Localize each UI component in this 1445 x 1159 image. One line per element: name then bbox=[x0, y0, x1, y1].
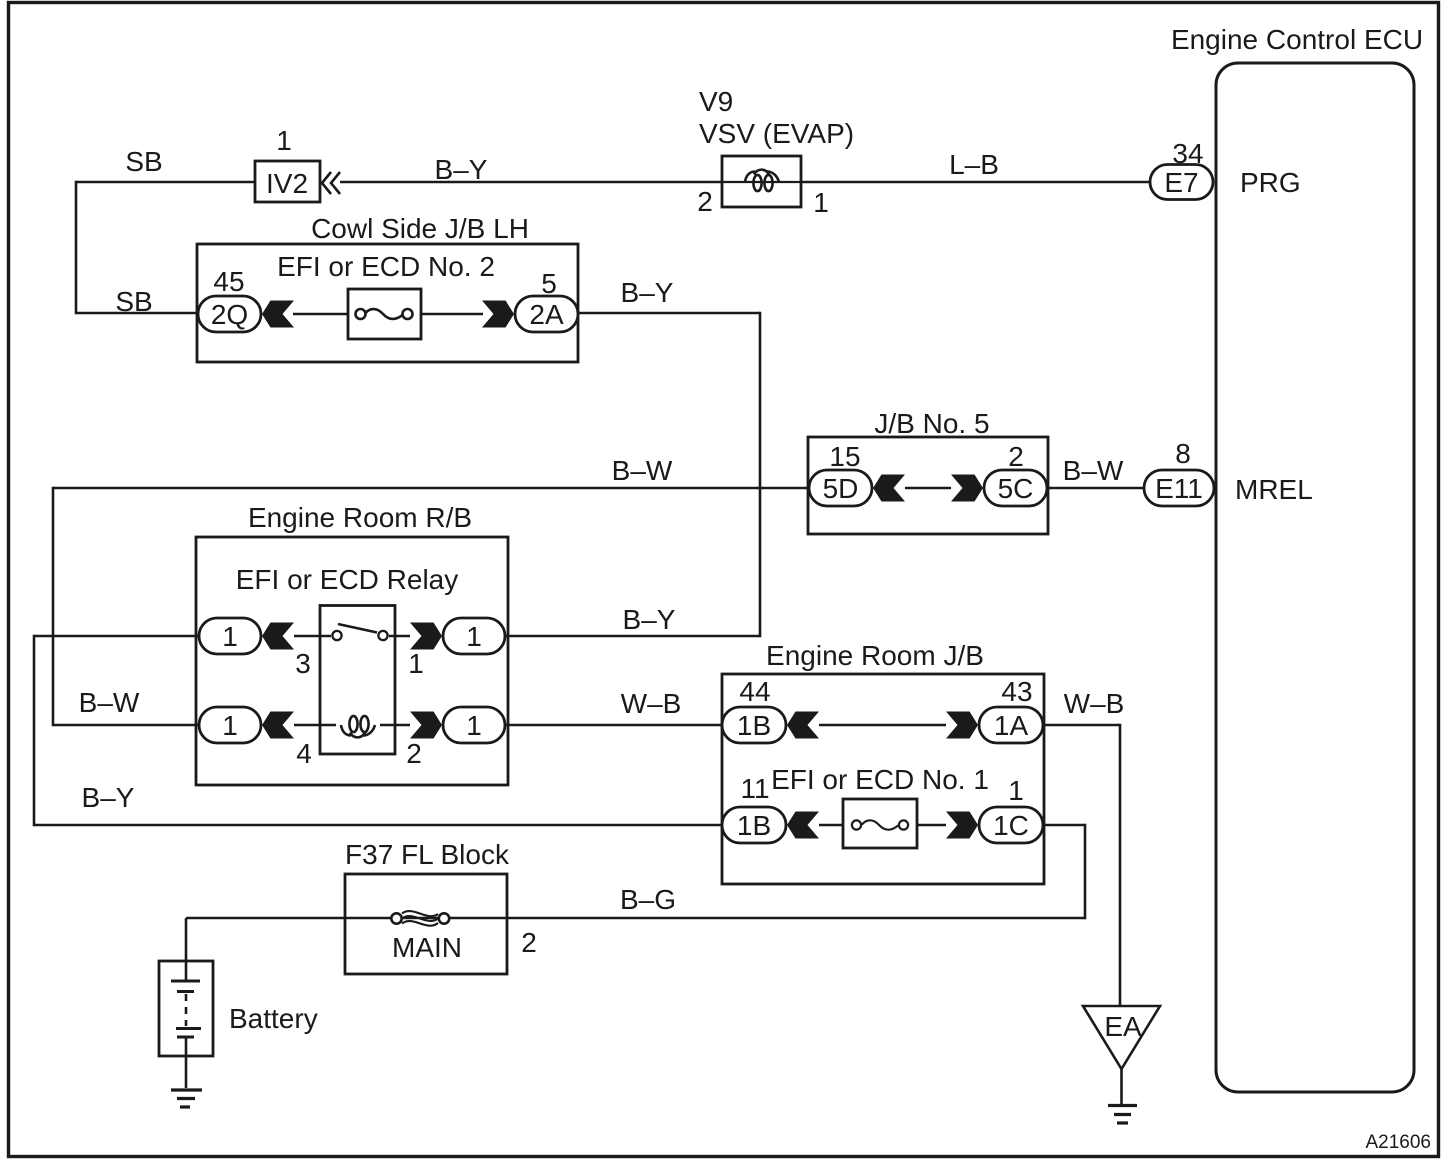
svg-text:V9: V9 bbox=[699, 86, 733, 117]
wire between arrows bbox=[905, 487, 951, 490]
svg-text:2A: 2A bbox=[529, 299, 564, 330]
wire B-Y bottom to 1B bbox=[34, 824, 722, 827]
connector 1B bottom bbox=[722, 807, 786, 843]
wire W-B (1A to EA drop) bbox=[1043, 724, 1120, 727]
F37 box bbox=[345, 874, 507, 974]
battery plate long bottom bbox=[176, 1027, 201, 1030]
fuse element bbox=[852, 820, 861, 829]
svg-text:L–B: L–B bbox=[949, 149, 999, 180]
Engine Room J/B box bbox=[722, 674, 1044, 884]
connector 1B top bbox=[722, 707, 786, 743]
ground bars EA bbox=[1108, 1104, 1137, 1107]
arrow into terminal 4 bbox=[262, 712, 294, 739]
R/B box bbox=[196, 537, 508, 785]
wire B-W to relay coil pin 4 bbox=[53, 724, 199, 727]
connector IV2 bbox=[255, 161, 320, 202]
svg-text:EFI or ECD Relay: EFI or ECD Relay bbox=[236, 564, 459, 595]
svg-text:EA: EA bbox=[1104, 1011, 1142, 1042]
battery plate short bottom bbox=[177, 1036, 194, 1039]
svg-text:1: 1 bbox=[276, 125, 292, 156]
relay terminal 3 oval bbox=[199, 618, 261, 654]
svg-text:45: 45 bbox=[213, 266, 244, 297]
wire battery bottom bbox=[185, 1037, 188, 1088]
relay switch blade bbox=[338, 624, 377, 633]
wire B-G horizontal bbox=[186, 917, 1085, 920]
connector E11 bbox=[1144, 470, 1214, 506]
ground under battery bbox=[171, 1088, 202, 1091]
wire W-B vertical to EA bbox=[1119, 724, 1122, 1006]
svg-text:A21606: A21606 bbox=[1365, 1132, 1431, 1153]
svg-text:1: 1 bbox=[813, 187, 829, 218]
arrow into 1B bottom bbox=[787, 812, 819, 839]
wire between arrows top row bbox=[819, 724, 946, 727]
svg-text:1A: 1A bbox=[994, 710, 1029, 741]
Cowl Side J/B LH block bbox=[197, 213, 578, 362]
wire arrow to fuse bbox=[819, 824, 843, 827]
arrow into 1B top bbox=[787, 712, 819, 739]
svg-text:SB: SB bbox=[115, 286, 152, 317]
wire B-W horizontal to 5D bbox=[53, 487, 808, 490]
svg-text:B–Y: B–Y bbox=[82, 782, 135, 813]
connector 2A bbox=[515, 296, 578, 332]
wire arrow to relay box bottom bbox=[294, 724, 336, 727]
svg-text:J/B No. 5: J/B No. 5 bbox=[874, 408, 989, 439]
fusible link wavy band bbox=[402, 911, 438, 926]
fuse EFI or ECD No. 1 box bbox=[843, 799, 917, 848]
svg-text:1C: 1C bbox=[993, 810, 1029, 841]
wire B-Y (2A to vertical) bbox=[578, 312, 760, 315]
wire L-B (VSV to E7) bbox=[801, 181, 1150, 184]
J/B No. 5 block bbox=[808, 408, 1048, 534]
VSV box bbox=[722, 156, 801, 207]
connector 2Q bbox=[198, 296, 261, 332]
relay coil (loops above line) bbox=[341, 716, 375, 737]
Engine Room J/B block bbox=[722, 640, 1044, 884]
svg-text:1: 1 bbox=[1008, 775, 1024, 806]
svg-text:1B: 1B bbox=[737, 810, 771, 841]
wire battery top bbox=[185, 918, 188, 981]
relay inner box bbox=[320, 606, 395, 755]
svg-text:E7: E7 bbox=[1164, 167, 1198, 198]
ground EA bbox=[1083, 1006, 1160, 1123]
wire B-W vertical x53 bbox=[52, 487, 55, 726]
relay terminal 2 oval bbox=[443, 707, 505, 743]
connector 1C bbox=[979, 807, 1043, 843]
connector 5C bbox=[984, 470, 1047, 506]
wire W-B relay pin2 to 1B bbox=[505, 724, 722, 727]
ECU U1 box (Engine Control ECU) bbox=[1216, 63, 1414, 1092]
svg-text:1B: 1B bbox=[737, 710, 771, 741]
J/B No.5 box bbox=[808, 437, 1048, 534]
fuse EFI or ECD No. 2 box bbox=[348, 289, 421, 339]
svg-text:1: 1 bbox=[222, 621, 238, 652]
svg-text:Engine Room J/B: Engine Room J/B bbox=[766, 640, 984, 671]
fuse element bbox=[356, 309, 366, 319]
svg-text:Cowl Side J/B LH: Cowl Side J/B LH bbox=[311, 213, 529, 244]
relay terminal 4 oval bbox=[199, 707, 261, 743]
connector arrow chevrons at IV2 bbox=[322, 172, 340, 194]
connector E7 bbox=[1150, 165, 1213, 200]
svg-text:1: 1 bbox=[222, 710, 238, 741]
wire coil to arrow bbox=[380, 724, 410, 727]
wire B-Y vertical x34 bbox=[33, 635, 36, 826]
battery bbox=[159, 918, 318, 1107]
wire B-Y (relay pin3 to left) bbox=[34, 635, 199, 638]
svg-text:B–G: B–G bbox=[620, 884, 676, 915]
svg-text:2: 2 bbox=[521, 927, 537, 958]
arrow into 2Q bbox=[262, 301, 294, 328]
wire B-Y (VSV to IV2) bbox=[340, 181, 722, 184]
svg-text:44: 44 bbox=[739, 676, 770, 707]
svg-text:11: 11 bbox=[740, 773, 769, 804]
wire EA to ground bbox=[1120, 1069, 1123, 1105]
svg-text:MAIN: MAIN bbox=[392, 932, 462, 963]
svg-text:B–Y: B–Y bbox=[623, 604, 676, 635]
wire 2Q arrow to fuse bbox=[293, 313, 348, 316]
svg-text:Battery: Battery bbox=[229, 1003, 318, 1034]
battery plate short bbox=[177, 990, 194, 993]
svg-text:1: 1 bbox=[408, 648, 424, 679]
svg-text:1: 1 bbox=[466, 621, 482, 652]
svg-text:2Q: 2Q bbox=[211, 299, 248, 330]
arrow into 1A bbox=[946, 712, 978, 739]
arrow into 5D bbox=[873, 475, 905, 502]
svg-text:Engine Control ECU: Engine Control ECU bbox=[1171, 24, 1423, 55]
svg-text:2: 2 bbox=[1008, 441, 1024, 472]
wire SB vertical drop bbox=[75, 181, 78, 314]
svg-text:B–W: B–W bbox=[79, 687, 140, 718]
component V9 VSV (EVAP) bbox=[697, 86, 854, 218]
svg-text:W–B: W–B bbox=[621, 688, 682, 719]
arrow into terminal 3 bbox=[262, 623, 294, 650]
Engine Room R/B block bbox=[196, 502, 508, 785]
svg-text:4: 4 bbox=[296, 738, 312, 769]
connector 1A bbox=[979, 707, 1043, 743]
EA triangle bbox=[1083, 1006, 1160, 1069]
svg-text:F37 FL Block: F37 FL Block bbox=[345, 839, 510, 870]
svg-text:1: 1 bbox=[466, 710, 482, 741]
wire SB (IV2 pin1 to left drop) bbox=[76, 181, 255, 184]
svg-text:E11: E11 bbox=[1155, 473, 1203, 504]
svg-text:5: 5 bbox=[541, 268, 557, 299]
arrow into 1C bbox=[946, 812, 978, 839]
svg-text:PRG: PRG bbox=[1240, 167, 1301, 198]
arrow into terminal 2 bbox=[410, 712, 442, 739]
wire relay box to arrow bbox=[389, 635, 410, 638]
svg-text:B–W: B–W bbox=[612, 455, 673, 486]
wire B-Y vertical x760 bbox=[759, 312, 762, 637]
svg-text:5C: 5C bbox=[998, 473, 1034, 504]
wire through VSV bbox=[722, 181, 801, 183]
wire B-W (5C to E11) bbox=[1047, 487, 1144, 490]
relay switch contact left bbox=[332, 631, 341, 640]
wire B-G vertical x1085 bbox=[1084, 824, 1087, 919]
battery box bbox=[159, 961, 213, 1056]
svg-text:Engine Room R/B: Engine Room R/B bbox=[248, 502, 472, 533]
svg-text:3: 3 bbox=[295, 648, 311, 679]
svg-text:B–W: B–W bbox=[1063, 455, 1124, 486]
svg-text:MREL: MREL bbox=[1235, 474, 1313, 505]
battery plate long top bbox=[171, 980, 200, 983]
wire fuse to arrow bbox=[421, 313, 483, 316]
Cowl Side box bbox=[197, 244, 578, 362]
svg-text:2: 2 bbox=[697, 186, 713, 217]
arrow into 2A bbox=[482, 301, 514, 328]
wire 1C to B-G drop bbox=[1043, 824, 1085, 827]
wire arrow to relay box bbox=[294, 635, 331, 638]
wire B-Y relay pin1 to vertical x760 bbox=[505, 635, 760, 638]
svg-text:43: 43 bbox=[1001, 676, 1032, 707]
svg-text:B–Y: B–Y bbox=[435, 154, 488, 185]
relay terminal 1 oval top bbox=[443, 618, 505, 654]
svg-text:B–Y: B–Y bbox=[621, 277, 674, 308]
arrow into terminal 1 top bbox=[410, 623, 442, 650]
fusible link MAIN circles bbox=[391, 913, 401, 923]
svg-text:VSV (EVAP): VSV (EVAP) bbox=[699, 118, 854, 149]
wire SB to 2Q bbox=[76, 312, 198, 315]
svg-text:EFI or ECD No. 2: EFI or ECD No. 2 bbox=[277, 251, 495, 282]
svg-text:8: 8 bbox=[1175, 438, 1191, 469]
svg-text:15: 15 bbox=[829, 441, 860, 472]
svg-text:5D: 5D bbox=[823, 473, 859, 504]
svg-text:2: 2 bbox=[406, 738, 422, 769]
coil of V9 (loops below line) bbox=[745, 170, 779, 191]
battery dashed link bbox=[185, 994, 188, 1026]
F37 FL Block bbox=[345, 839, 537, 974]
connector 5D bbox=[809, 470, 872, 506]
svg-text:SB: SB bbox=[125, 146, 162, 177]
svg-text:IV2: IV2 bbox=[266, 168, 308, 199]
arrow into 5C bbox=[951, 475, 983, 502]
svg-text:EFI or ECD No. 1: EFI or ECD No. 1 bbox=[771, 764, 989, 795]
relay switch contact right bbox=[378, 631, 387, 640]
wire fuse to arrow bbox=[917, 824, 946, 827]
svg-text:W–B: W–B bbox=[1064, 688, 1125, 719]
